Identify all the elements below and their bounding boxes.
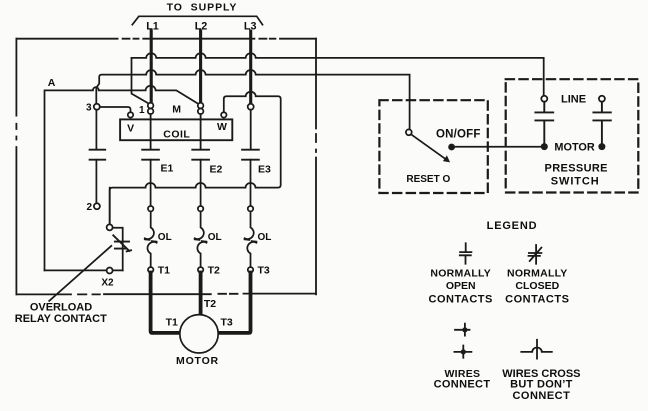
legend wires-cross symbol — [521, 340, 552, 359]
enclosure border bottom (dash-dot) — [16, 293, 316, 296]
enclosure border left (dash-dot) — [15, 39, 17, 295]
pressure switch LINE terminal circle (pole 1) — [541, 96, 547, 102]
svg-text:OL: OL — [258, 232, 272, 243]
wire E2 to OL2 — [200, 160, 202, 206]
wire L3 to E3 — [250, 110, 252, 149]
overload heater OL2 — [195, 211, 207, 267]
OL3 top terminal circle — [248, 206, 253, 211]
coil box — [120, 119, 232, 140]
wire L1 supply stub (thick) — [150, 31, 153, 103]
svg-text:CONNECT: CONNECT — [512, 390, 570, 402]
overload heater OL1 — [145, 211, 157, 267]
pressure switch pole 1 contact — [535, 102, 553, 144]
enclosure border top (dash-dot) — [16, 38, 316, 40]
wire A: node A horizontal run, hops over 3-riser and L1, blade into M contact L2 — [45, 86, 198, 271]
svg-text:T1: T1 — [158, 265, 170, 277]
enclosure border right (dash-dot) — [315, 39, 317, 295]
contact E1 (normally open) — [142, 150, 159, 160]
wire L3 supply stub (thick) — [249, 31, 252, 104]
node pressure switch dot (pole 2) — [598, 143, 605, 150]
wire 3-2 holding contact riser — [95, 110, 97, 149]
svg-text:A: A — [48, 77, 56, 89]
legend wires-connect symbol (junction 1) — [455, 324, 470, 336]
terminal T2 circle — [198, 267, 203, 272]
svg-text:LEGEND: LEGEND — [487, 220, 538, 232]
wire X2 branch bottom — [45, 269, 123, 271]
leader line to overload relay contact — [49, 246, 111, 301]
svg-text:BUT DON’T: BUT DON’T — [510, 378, 573, 390]
reset switch blade arrow — [411, 134, 446, 159]
svg-text:W: W — [217, 121, 227, 133]
svg-text:3: 3 — [86, 103, 92, 114]
supply bracket — [132, 16, 262, 24]
terminal T3 circle — [248, 267, 253, 272]
legend wires-connect symbol (junction 2) — [454, 346, 471, 358]
svg-text:COIL: COIL — [163, 128, 190, 140]
motor lead T2 (thick) — [199, 273, 203, 315]
wire ON/OFF to pressure switch MOTOR — [452, 146, 545, 148]
contact 3-2 (normally open) — [90, 150, 106, 160]
wire 1: node to pressure-switch LINE (hops over L1 L2 L3) — [132, 53, 544, 95]
svg-text:2: 2 — [86, 202, 92, 213]
svg-text:PRESSURE: PRESSURE — [545, 163, 608, 175]
svg-text:CLOSED: CLOSED — [515, 280, 559, 292]
pressure switch terminal circle (pole 2) — [599, 96, 605, 102]
overload relay NC contact top circle — [107, 224, 113, 230]
svg-text:ON/OFF: ON/OFF — [436, 128, 481, 140]
svg-text:X2: X2 — [101, 277, 114, 288]
wire L1 through coil box to E1 — [150, 114, 152, 149]
overload relay NC contact slash — [113, 235, 131, 251]
svg-text:E2: E2 — [210, 164, 223, 176]
wire contact 3-2 to terminal 2 — [95, 160, 97, 204]
svg-text:CONNECT: CONNECT — [434, 378, 491, 390]
svg-text:SWITCH: SWITCH — [551, 175, 600, 187]
svg-text:NORMALLY: NORMALLY — [507, 268, 568, 280]
svg-text:E3: E3 — [258, 164, 271, 176]
OL2 top terminal circle — [198, 206, 203, 211]
overload relay NC contact leads — [110, 188, 123, 271]
motor lead T3 (thick) — [218, 273, 251, 333]
wire 1 drop to node A and M blade L1 — [132, 58, 149, 103]
svg-text:RELAY CONTACT: RELAY CONTACT — [15, 313, 107, 325]
svg-text:T2: T2 — [204, 298, 216, 310]
svg-text:TO SUPPLY: TO SUPPLY — [167, 2, 238, 14]
overload relay NC contact bars — [115, 242, 129, 249]
svg-text:OVERLOAD: OVERLOAD — [30, 301, 92, 313]
legend normally-closed contact symbol — [529, 245, 542, 264]
wire terminal 3 to coil V terminal — [100, 107, 131, 112]
PRESSURE SWITCH box (dashed) — [506, 79, 639, 192]
svg-text:T3: T3 — [221, 316, 233, 328]
motor lead T1 (thick) — [151, 273, 181, 333]
contact E3 (normally open) — [242, 150, 259, 160]
svg-text:M: M — [172, 103, 181, 115]
svg-text:LINE: LINE — [561, 94, 586, 106]
svg-text:MOTOR: MOTOR — [176, 355, 219, 367]
legend normally-open contact symbol — [460, 243, 472, 263]
svg-text:NORMALLY: NORMALLY — [430, 268, 491, 280]
node ON/OFF dot — [448, 144, 455, 151]
OL1 top terminal circle — [148, 206, 153, 211]
pressure switch pole 2 contact — [593, 102, 610, 144]
svg-text:OL: OL — [208, 232, 222, 243]
wire E1 to OL1 — [150, 160, 152, 206]
svg-text:OPEN: OPEN — [446, 280, 476, 292]
wire 2: terminal-3 riser to RESET box (hops over L1 L2 L3) — [96, 70, 409, 129]
svg-text:MOTOR: MOTOR — [554, 142, 594, 154]
svg-text:T1: T1 — [166, 316, 178, 328]
wire coil W to overload contact (hops over L3 and E1 E2 E3 risers) — [110, 92, 281, 225]
overload heater OL3 — [245, 211, 257, 267]
svg-text:V: V — [127, 122, 134, 134]
node pressure switch MOTOR dot (pole 1) — [541, 143, 548, 150]
svg-text:CONTACTS: CONTACTS — [505, 293, 569, 305]
svg-text:T3: T3 — [258, 265, 270, 277]
reset switch open terminal circle — [406, 129, 412, 135]
svg-text:T2: T2 — [208, 265, 220, 277]
terminal X2 circle — [107, 268, 113, 274]
wire E3 to OL3 — [250, 160, 252, 206]
terminal T1 circle — [148, 267, 153, 272]
contact M pole L1 (double circles) — [148, 103, 154, 109]
svg-text:E1: E1 — [161, 163, 174, 175]
wire L2 through coil box to E2 — [200, 114, 202, 149]
wire L2 supply stub (thick) — [199, 31, 202, 103]
svg-text:1: 1 — [139, 105, 145, 116]
RESET box (dashed) — [379, 100, 487, 193]
svg-text:OL: OL — [158, 232, 172, 243]
svg-text:CONTACTS: CONTACTS — [429, 293, 493, 305]
terminal 2 circle — [94, 203, 100, 209]
terminal 3 circle — [94, 104, 100, 110]
motor circle — [180, 315, 218, 353]
reset switch arrowhead — [443, 155, 450, 162]
contact M pole L2 (double circles) — [198, 103, 204, 109]
coil W terminal circle — [221, 112, 226, 117]
contact E2 (normally open) — [192, 150, 209, 160]
contact M pole L3 (single circle) — [248, 104, 254, 110]
coil V terminal circle — [128, 112, 133, 117]
svg-text:RESET O: RESET O — [406, 174, 450, 185]
